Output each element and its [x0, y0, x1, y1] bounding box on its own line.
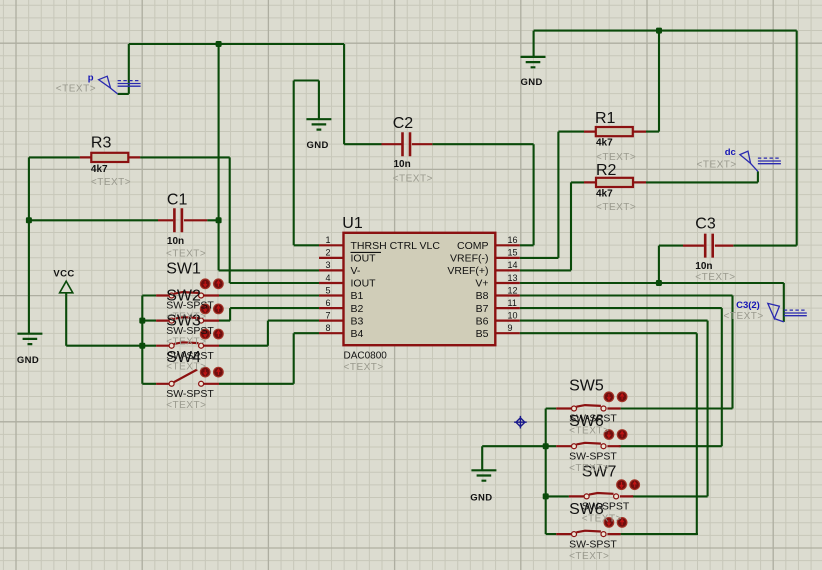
svg-text:R3: R3 — [91, 135, 112, 152]
svg-text:IOUT: IOUT — [351, 278, 377, 290]
svg-text:<TEXT>: <TEXT> — [724, 311, 764, 322]
svg-text:VREF(-): VREF(-) — [450, 253, 489, 265]
svg-text:<TEXT>: <TEXT> — [697, 160, 737, 171]
svg-text:<TEXT>: <TEXT> — [344, 362, 384, 373]
svg-text:B8: B8 — [476, 290, 489, 302]
svg-text:<TEXT>: <TEXT> — [569, 463, 609, 474]
svg-text:SW-SPST: SW-SPST — [569, 450, 617, 462]
svg-text:C3(2): C3(2) — [736, 300, 760, 311]
svg-text:4: 4 — [325, 273, 330, 283]
svg-text:R2: R2 — [596, 162, 617, 179]
svg-text:10n: 10n — [394, 159, 411, 170]
svg-text:COMP: COMP — [457, 240, 489, 252]
svg-text:<TEXT>: <TEXT> — [166, 400, 206, 411]
svg-text:8: 8 — [325, 323, 330, 333]
svg-text:<TEXT>: <TEXT> — [166, 362, 206, 373]
svg-text:IOUT: IOUT — [351, 253, 377, 265]
svg-text:4k7: 4k7 — [596, 189, 613, 200]
svg-text:GND: GND — [520, 77, 542, 88]
svg-text:B3: B3 — [351, 315, 364, 327]
svg-text:<TEXT>: <TEXT> — [569, 426, 609, 437]
svg-text:<TEXT>: <TEXT> — [695, 272, 735, 283]
svg-text:GND: GND — [470, 493, 492, 504]
svg-text:13: 13 — [508, 273, 518, 283]
svg-text:3: 3 — [325, 260, 330, 270]
svg-text:11: 11 — [508, 298, 517, 308]
svg-text:C1: C1 — [167, 192, 188, 209]
svg-text:C2: C2 — [393, 115, 414, 132]
svg-text:SW-SPST: SW-SPST — [166, 388, 214, 400]
svg-text:2: 2 — [325, 248, 330, 258]
svg-text:B1: B1 — [351, 290, 364, 302]
svg-text:GND: GND — [17, 355, 39, 366]
svg-text:10: 10 — [508, 310, 518, 320]
svg-text:10n: 10n — [167, 236, 184, 247]
svg-text:SW-SPST: SW-SPST — [569, 413, 617, 425]
svg-text:B2: B2 — [351, 303, 364, 315]
svg-text:<TEXT>: <TEXT> — [596, 152, 636, 163]
svg-text:VREF(+): VREF(+) — [447, 265, 488, 277]
svg-text:7: 7 — [325, 310, 330, 320]
svg-text:B7: B7 — [476, 303, 489, 315]
svg-text:V+: V+ — [475, 278, 488, 290]
svg-text:p: p — [88, 73, 94, 84]
svg-text:<TEXT>: <TEXT> — [91, 177, 131, 188]
svg-text:16: 16 — [508, 235, 518, 245]
svg-text:9: 9 — [508, 323, 513, 333]
svg-text:5: 5 — [325, 285, 330, 295]
svg-text:B5: B5 — [476, 328, 489, 340]
svg-text:<TEXT>: <TEXT> — [569, 551, 609, 562]
svg-text:THRSH CTRL VLC: THRSH CTRL VLC — [351, 240, 441, 252]
svg-text:<TEXT>: <TEXT> — [166, 337, 206, 348]
svg-text:10n: 10n — [695, 261, 712, 272]
svg-text:B6: B6 — [476, 315, 489, 327]
svg-text:U1: U1 — [342, 215, 363, 232]
svg-text:SW1: SW1 — [166, 260, 201, 277]
svg-text:1: 1 — [325, 235, 330, 245]
svg-text:SW-SPST: SW-SPST — [582, 501, 630, 513]
svg-text:<TEXT>: <TEXT> — [166, 312, 206, 323]
svg-text:V-: V- — [351, 265, 361, 277]
svg-text:DAC0800: DAC0800 — [344, 350, 388, 361]
svg-text:<TEXT>: <TEXT> — [393, 174, 433, 185]
svg-text:SW-SPST: SW-SPST — [166, 300, 214, 312]
svg-text:SW-SPST: SW-SPST — [569, 538, 617, 550]
svg-text:4k7: 4k7 — [91, 164, 108, 175]
svg-text:VCC: VCC — [53, 268, 74, 279]
svg-text:4k7: 4k7 — [596, 138, 613, 149]
svg-text:6: 6 — [325, 298, 330, 308]
svg-text:<TEXT>: <TEXT> — [166, 249, 206, 260]
svg-text:<TEXT>: <TEXT> — [596, 202, 636, 213]
svg-text:dc: dc — [725, 147, 736, 158]
svg-text:SW-SPST: SW-SPST — [166, 325, 214, 337]
svg-text:14: 14 — [508, 260, 518, 270]
svg-text:GND: GND — [306, 140, 328, 151]
svg-text:C3: C3 — [695, 215, 716, 232]
svg-text:R1: R1 — [595, 110, 616, 127]
svg-text:SW-SPST: SW-SPST — [166, 350, 214, 362]
svg-text:<TEXT>: <TEXT> — [56, 84, 96, 95]
svg-text:SW5: SW5 — [569, 378, 604, 395]
svg-text:<TEXT>: <TEXT> — [582, 513, 622, 524]
svg-text:12: 12 — [508, 285, 518, 295]
svg-text:B4: B4 — [351, 328, 364, 340]
svg-text:15: 15 — [508, 248, 518, 258]
